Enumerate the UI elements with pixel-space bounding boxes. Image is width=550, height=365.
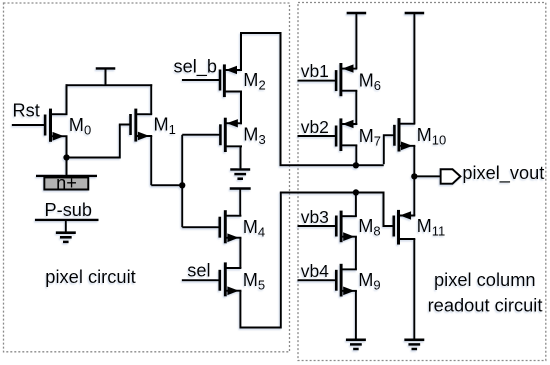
svg-text:pixel_vout: pixel_vout — [462, 163, 544, 184]
wire: node down to n+ diffusion — [66, 158, 68, 176]
svg-text:M5: M5 — [243, 270, 265, 293]
transistor M3 (PMOS) — [220, 118, 265, 152]
wire: vb2 to M7 gate — [298, 135, 337, 137]
svg-text:M9: M9 — [358, 270, 380, 293]
transistor M10 (NMOS) — [394, 118, 446, 151]
wire: M7 drain down to bus1 — [355, 145, 357, 165]
wire: rail to M0 drain — [66, 84, 68, 114]
wire: node to M1 gate riser — [67, 157, 120, 159]
node: M1 source / M3 gate / M4 gate — [179, 182, 185, 188]
svg-text:M1: M1 — [154, 114, 176, 137]
transistor M9 (NMOS) — [336, 264, 380, 297]
transistor M4 (NMOS) — [220, 210, 265, 243]
svg-text:P-sub: P-sub — [45, 200, 93, 220]
wire: M10 gate riser — [384, 135, 395, 164]
transistor M2 (PMOS) — [220, 64, 266, 97]
svg-text:M6: M6 — [359, 70, 381, 93]
wire: M4 gate lead — [182, 226, 220, 228]
transistor M1 (NMOS) — [131, 109, 176, 142]
n+ diffusion region box — [44, 177, 88, 189]
wire: sel_b to M2 gate — [182, 79, 220, 81]
svg-text:M2: M2 — [243, 70, 265, 93]
wire: M5 source down right and up to bus2 — [240, 193, 280, 328]
svg-text:vb4: vb4 — [301, 261, 329, 281]
wire: M1 source to gate riser of M3/M4 — [151, 184, 182, 186]
wire: sel to M5 gate — [182, 279, 220, 281]
wire: drain rail M0-M1 — [66, 84, 153, 86]
ground: M11 drain — [404, 340, 424, 349]
wire: M9 source down to ground — [355, 291, 357, 340]
transistor M0 (NMOS) — [45, 109, 91, 142]
left panel: pixel circuit dashed border — [4, 3, 290, 352]
transistor M11 (PMOS) — [394, 210, 445, 245]
wire: M11 source up to vout node — [413, 176, 415, 215]
n+ diffusion top plate — [36, 175, 97, 177]
svg-text:Rst: Rst — [13, 101, 40, 121]
wire: M3 gate lead — [182, 134, 220, 136]
wire: bus1 M3 net to right section — [280, 164, 384, 166]
wire: M0 source down to node — [66, 136, 68, 157]
VDD supply T-bar left section — [96, 69, 116, 86]
node: pixel_vout — [411, 173, 417, 179]
svg-text:vb1: vb1 — [301, 61, 329, 81]
node: bus1 / M7 drain / M10 gate — [353, 162, 359, 168]
svg-text:sel_b: sel_b — [174, 57, 217, 78]
wire: vb3 to M8 gate — [298, 225, 337, 227]
wire: substrate to ground — [65, 220, 67, 233]
wire: M2 drain to M3 source — [240, 92, 242, 125]
wire: M6 drain to M7 source — [355, 91, 357, 125]
transistor M6 (PMOS) — [336, 63, 381, 96]
transistor M5 (NMOS) — [220, 262, 265, 296]
VDD supply T-bar above M10 — [405, 13, 425, 124]
wire: M8 source to M9 drain — [355, 237, 357, 270]
wire: M4 source to M5 drain — [239, 238, 241, 268]
wire: vout node to output pointer — [414, 175, 440, 177]
svg-text:M8: M8 — [358, 216, 380, 239]
wire: M3 drain down to ground — [240, 146, 242, 169]
wire: M3-M4 gate riser — [181, 135, 183, 227]
supply T-bar above M4 — [230, 189, 251, 216]
P-sub substrate line — [35, 219, 99, 221]
svg-text:n+: n+ — [56, 173, 77, 193]
wire: vb4 to M9 gate — [298, 279, 337, 281]
node: M0 source / n+ / M1 gate junction — [63, 154, 69, 160]
output pointer pixel_vout — [441, 169, 461, 184]
svg-text:pixel column: pixel column — [434, 269, 536, 290]
wire: M11 drain down to ground — [413, 239, 415, 340]
transistor M7 (PMOS) — [336, 118, 381, 151]
svg-text:M3: M3 — [243, 125, 265, 148]
ground: M9 source — [346, 340, 366, 349]
wire: M8 drain up to bus2 — [355, 192, 357, 217]
svg-text:vb2: vb2 — [301, 117, 329, 137]
wire: M1 gate lead — [119, 124, 131, 126]
svg-text:pixel circuit: pixel circuit — [45, 266, 135, 287]
wire: M11 gate riser — [384, 192, 394, 227]
ground: M3 drain — [230, 170, 250, 179]
svg-text:sel: sel — [187, 261, 210, 281]
wire: bus2 M5 net to right section — [280, 192, 384, 194]
ground: substrate — [56, 233, 76, 242]
VDD supply T-bar above M6 — [347, 13, 367, 69]
wire: M1 source down — [150, 136, 152, 185]
transistor M8 (NMOS) — [336, 211, 380, 243]
svg-text:M10: M10 — [417, 125, 447, 148]
wire: Rst to M0 gate — [12, 124, 45, 126]
right panel: pixel column readout circuit dashed border — [298, 3, 546, 361]
svg-text:M0: M0 — [69, 115, 91, 138]
wire: M2 source up over to right bus — [241, 33, 281, 165]
svg-text:readout circuit: readout circuit — [428, 294, 543, 315]
svg-text:vb3: vb3 — [301, 207, 329, 227]
wire: M10 source down to vout node — [413, 146, 415, 177]
node: bus2 / M8 drain / M11 gate — [353, 189, 359, 195]
svg-text:M11: M11 — [417, 216, 446, 239]
svg-text:M7: M7 — [359, 126, 381, 149]
wire: vb1 to M6 gate — [298, 80, 337, 82]
wire: rail to M1 drain — [150, 84, 152, 114]
svg-text:M4: M4 — [243, 217, 265, 240]
